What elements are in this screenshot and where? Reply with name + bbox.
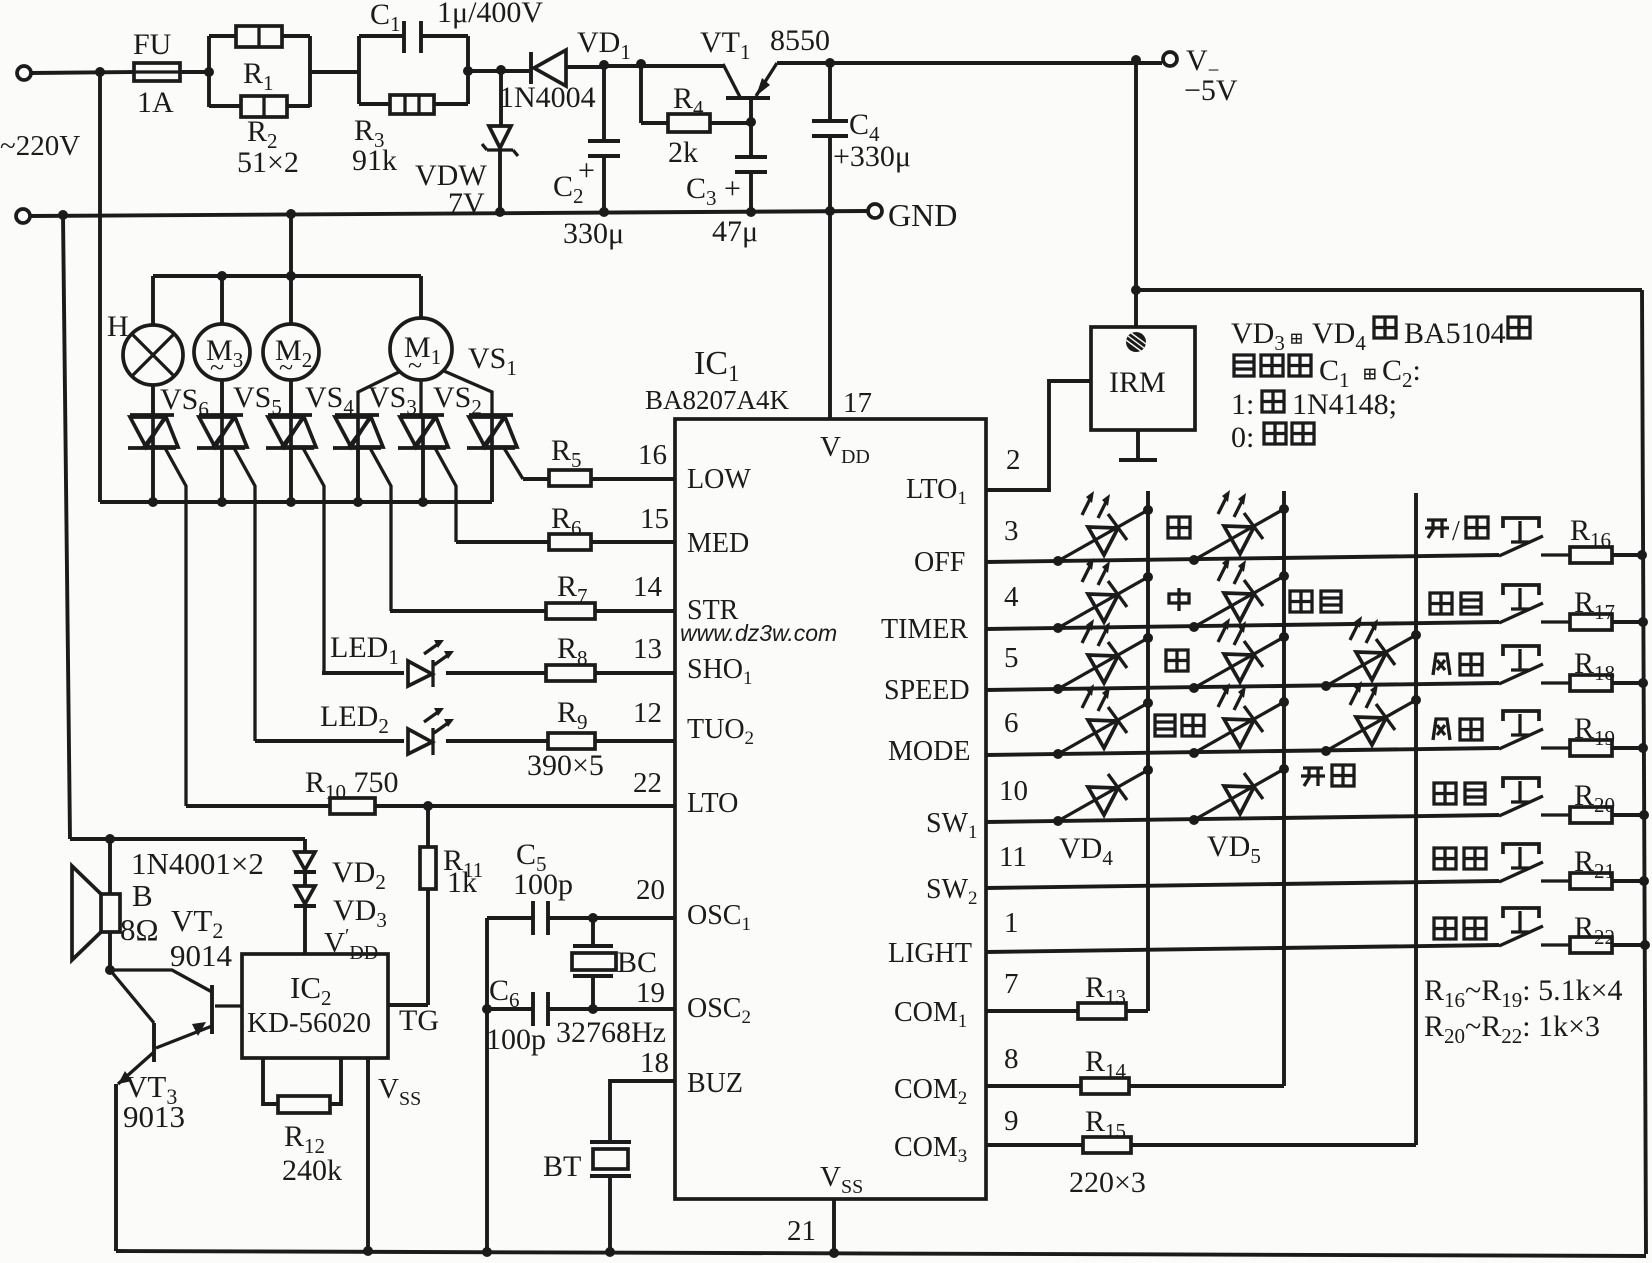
key swing [1434,778,1570,816]
resistor R11 1k [388,806,483,1005]
resistor R13 [986,971,1148,1019]
svg-text:21: 21 [787,1215,816,1247]
resistor R14 [986,1045,1284,1094]
resistor R4 2k [641,64,756,169]
svg-text:/: / [1452,516,1460,547]
resistor R12 240k [263,1058,342,1187]
LED1 [322,631,546,687]
svg-text:15: 15 [640,503,669,535]
label sleep [1290,591,1341,612]
wire VS6 gate to R10 line [165,448,186,806]
motor M2 [263,276,319,382]
IC2 KD-56020 box [242,954,388,1058]
resistor R8 [546,632,675,681]
diode VD5 [1189,764,1289,868]
LED row4 col2 [1189,557,1289,632]
svg-text:SHO1: SHO1 [687,654,753,689]
pin 21 VSS [787,1161,863,1252]
triac VS5 [197,380,282,502]
svg-text:TUO2: TUO2 [687,714,754,749]
crystal BC 32768Hz [572,918,657,1009]
terminal N [16,209,30,223]
LED row5 col1 [1053,619,1153,694]
triac VS3 [333,381,417,502]
LED row5 col3 [1321,616,1421,691]
terminal L ~220V [17,66,31,80]
svg-text:51×2: 51×2 [237,146,299,179]
LED row5 col2 [1189,618,1289,693]
resistor R19 [1570,712,1648,756]
svg-text:8550: 8550 [770,24,830,57]
triac VS1 [467,415,517,502]
LED row6 col1 [1053,684,1153,759]
svg-text:COM1: COM1 [894,997,967,1032]
terminal V- -5V [1163,44,1238,107]
resistor R7 [390,570,675,619]
svg-text:~: ~ [210,353,224,382]
wire V- down to right rail [1131,60,1642,295]
svg-text:18: 18 [640,1047,669,1079]
svg-text:1k: 1k [447,866,477,899]
svg-text:OFF: OFF [914,547,965,578]
resistor R6 [456,502,675,550]
wire bottom rail [116,1248,1646,1258]
svg-text:BA5104: BA5104 [1404,317,1506,350]
LED bus 3 [1414,493,1418,1145]
label VDD' [324,925,378,964]
wire VS5 gate to TUO2 line [234,448,255,741]
label strong [1168,517,1190,538]
svg-text:COM3: COM3 [894,1132,967,1167]
transistor VT1 8550 [700,24,830,122]
svg-text:9014: 9014 [170,938,233,973]
svg-text:KD-56020: KD-56020 [247,1007,371,1039]
svg-text:1:: 1: [1231,388,1254,421]
svg-text:390×5: 390×5 [527,749,604,782]
label ~220V [0,130,80,162]
note text 1 1N4148 [1231,388,1397,421]
label weak [1166,650,1188,671]
ground under IRM [1119,430,1157,460]
svg-text:~: ~ [279,353,293,382]
svg-text:11: 11 [999,841,1027,873]
wire L to fuse [31,72,134,73]
svg-text:LTO: LTO [687,788,738,819]
svg-text:TG: TG [399,1004,439,1037]
svg-text:8Ω: 8Ω [120,912,159,947]
svg-text:7: 7 [1004,968,1019,1000]
svg-text:32768Hz: 32768Hz [556,1016,666,1049]
svg-text:3: 3 [1004,515,1019,547]
resistor R1 [209,26,310,107]
terminal GND [868,197,957,233]
svg-text:13: 13 [633,633,662,665]
key tilt [1434,844,1570,882]
key lamp [1434,908,1570,946]
svg-text:2: 2 [1006,444,1021,476]
fuse FU 1A [133,28,180,119]
svg-text:FU: FU [133,28,172,61]
svg-text:1μ/400V: 1μ/400V [437,0,543,29]
wire right rail [1642,290,1646,1254]
wire speaker top rail [70,834,305,844]
key windtype [1433,711,1570,749]
LED bus 2 [1282,491,1286,1086]
wire fuse to node A [180,70,209,74]
pin names right [881,474,978,1167]
transistor VT2 9014 [105,903,242,1048]
capacitor C5 100p [487,838,675,935]
label VS1 [468,342,517,380]
diode VD3 [294,872,387,954]
svg-text:LIGHT: LIGHT [888,938,972,969]
wire node to C1R3 [310,70,359,74]
capacitor C4 +330u [812,63,911,211]
svg-text:12: 12 [633,697,662,729]
svg-text:IRM: IRM [1109,366,1166,399]
svg-text:1N4148;: 1N4148; [1292,388,1397,421]
pin numbers right side [999,515,1028,1137]
svg-text:5: 5 [1004,642,1019,674]
annotation resistor values [1424,974,1623,1048]
svg-text:C2:: C2: [1382,354,1421,392]
wire TIMER row4 [986,622,1499,629]
svg-text:19: 19 [636,977,665,1009]
motor M1 [390,276,452,380]
diode VD2 [294,839,386,894]
wire VD1 to VT1 [599,59,723,70]
speaker B 8ohm [72,839,159,970]
wire VT1 to V- [777,55,1162,68]
wire C1R3 to VD1 [463,65,529,76]
key speed [1433,646,1570,684]
svg-text:20: 20 [636,874,665,906]
svg-text:BT: BT [543,1150,581,1183]
wire GND rail [30,211,867,216]
wire SW1 row10 [986,815,1499,822]
LED row3 col2 [1189,490,1289,565]
wire neutral to motor bus [289,214,293,276]
wire M1 to VS3 [358,372,399,415]
wire triac common bus [100,497,492,507]
svg-text:BC: BC [617,946,657,979]
wire M1 to VS1 [444,371,492,415]
resistor R20 [1570,779,1649,823]
wire MODE row6 [986,748,1499,755]
svg-text:10: 10 [999,775,1028,807]
svg-text:330μ: 330μ [563,217,624,250]
zener VDW 7V [415,70,518,220]
resistor R2 51x2 [209,36,310,179]
wire osc left vertical to rail [482,918,492,1257]
svg-text:TIMER: TIMER [881,614,968,645]
wire LTO1 pin2 to IRM [986,381,1091,490]
svg-text:100p: 100p [513,868,573,901]
LED row4 col1 [1053,558,1153,633]
svg-text:17: 17 [843,387,872,419]
wire M1 to VS2 [419,380,422,415]
watermark [680,620,837,646]
svg-text:OSC1: OSC1 [687,900,751,935]
note text user code [1234,354,1421,392]
svg-text:OSC2: OSC2 [687,993,751,1028]
label 1N4001x2 [131,846,264,881]
svg-text:BUZ: BUZ [687,1068,743,1099]
svg-text:GND: GND [888,197,957,233]
lamp H [107,276,183,385]
LED2 [255,700,548,755]
capacitor C6 100p [482,974,675,1056]
wire SW2 row11 [986,881,1499,888]
svg-text:BA8207A4K: BA8207A4K [645,385,790,415]
resistor R9 390x5 [527,696,675,782]
svg-text:COM2: COM2 [894,1074,967,1109]
resistor R16 [1570,514,1647,563]
wire LIGHT row1 [986,945,1499,952]
triac VS6 [128,383,209,502]
note text VD3 VD4 BA5104 [1231,317,1530,355]
svg-text:1N4001×2: 1N4001×2 [131,846,264,881]
wire motor bus [153,271,421,281]
svg-text:1A: 1A [137,86,174,119]
svg-text:9: 9 [1004,1105,1019,1137]
resistor R17 [1570,586,1648,630]
svg-text:16: 16 [638,439,667,471]
LED row3 col1 [1053,491,1153,566]
triac VS4 [266,380,354,502]
svg-text:LOW: LOW [687,464,751,495]
svg-text:2k: 2k [668,136,698,169]
resistor R15 220x3 [986,1105,1416,1199]
svg-text:6: 6 [1004,707,1019,739]
resistor R18 [1570,647,1648,691]
svg-text:MED: MED [687,528,749,559]
svg-text:+: + [578,154,595,187]
svg-text:R10 750: R10 750 [305,766,399,804]
node A junction [95,67,214,77]
op-amp U1 IC1 BA8207A4K box [645,345,986,1199]
svg-text:1N4004: 1N4004 [499,81,596,114]
diode VD1 1N4004 [499,26,631,114]
triac VS2 [398,381,482,502]
svg-text:100p: 100p [486,1023,546,1056]
svg-text:4: 4 [1004,581,1019,613]
pin 17 VDD [820,211,872,468]
capacitor C2 330u [553,65,624,250]
wire VS3 gate to STR line [370,448,391,611]
IRM receiver module [1091,290,1195,430]
svg-text:22: 22 [633,767,662,799]
transistor VT3 9013 [110,970,185,1251]
svg-text:240k: 240k [282,1154,342,1187]
svg-text:9013: 9013 [123,1099,185,1134]
buzzer BT [543,1047,675,1257]
key timer [1430,585,1570,623]
resistor R3 91k [352,36,468,177]
wire SPEED row5 [986,683,1499,690]
svg-text:91k: 91k [352,144,397,177]
LED row6 col3 [1321,681,1421,756]
svg-text:B: B [132,878,153,913]
svg-text:MODE: MODE [888,736,970,767]
wire VS4 gate to SHO1 line [303,448,324,673]
wire IC2 VSS to rail [363,1058,421,1256]
svg-text:0:: 0: [1231,421,1254,454]
svg-text:SPEED: SPEED [884,675,970,706]
wire VS1 gate to LOW line [504,448,523,479]
capacitor C3 47u [686,122,767,248]
svg-text:8: 8 [1004,1043,1019,1075]
svg-text:1: 1 [1004,907,1019,939]
svg-text:220×3: 220×3 [1069,1166,1146,1199]
wire OFF row3 [986,555,1499,562]
label TG [399,1004,439,1037]
svg-text:14: 14 [633,571,663,603]
svg-text:H: H [107,310,129,343]
wire VS2 gate to MED line [435,448,456,542]
svg-text:~: ~ [408,351,422,380]
capacitor C1 1u/400V [359,0,543,104]
svg-text:−5V: −5V [1184,74,1238,107]
note text 0 open [1231,421,1314,454]
svg-text:+: + [724,172,741,205]
junction dots GND rail [58,206,835,220]
label natural [1155,715,1204,736]
resistor R5 [523,434,675,486]
key on-off [1425,516,1570,556]
svg-text:www.dz3w.com: www.dz3w.com [680,620,837,646]
LED bus 1 [1146,491,1150,1011]
pin names left [687,464,754,1099]
resistor R22 [1570,911,1650,953]
LED row6 col2 [1189,683,1289,758]
label normal [1301,765,1354,786]
svg-text:+330μ: +330μ [833,140,911,173]
wire L-phase vertical [98,72,102,502]
resistor R10 750 [186,766,675,814]
svg-text:47μ: 47μ [712,215,758,248]
motor M3 [194,276,250,382]
wire neutral left vertical [63,215,70,839]
label middle [1169,588,1189,611]
resistor R21 [1570,845,1649,889]
diode VD4 [1053,765,1153,870]
svg-text:~220V: ~220V [0,130,80,162]
